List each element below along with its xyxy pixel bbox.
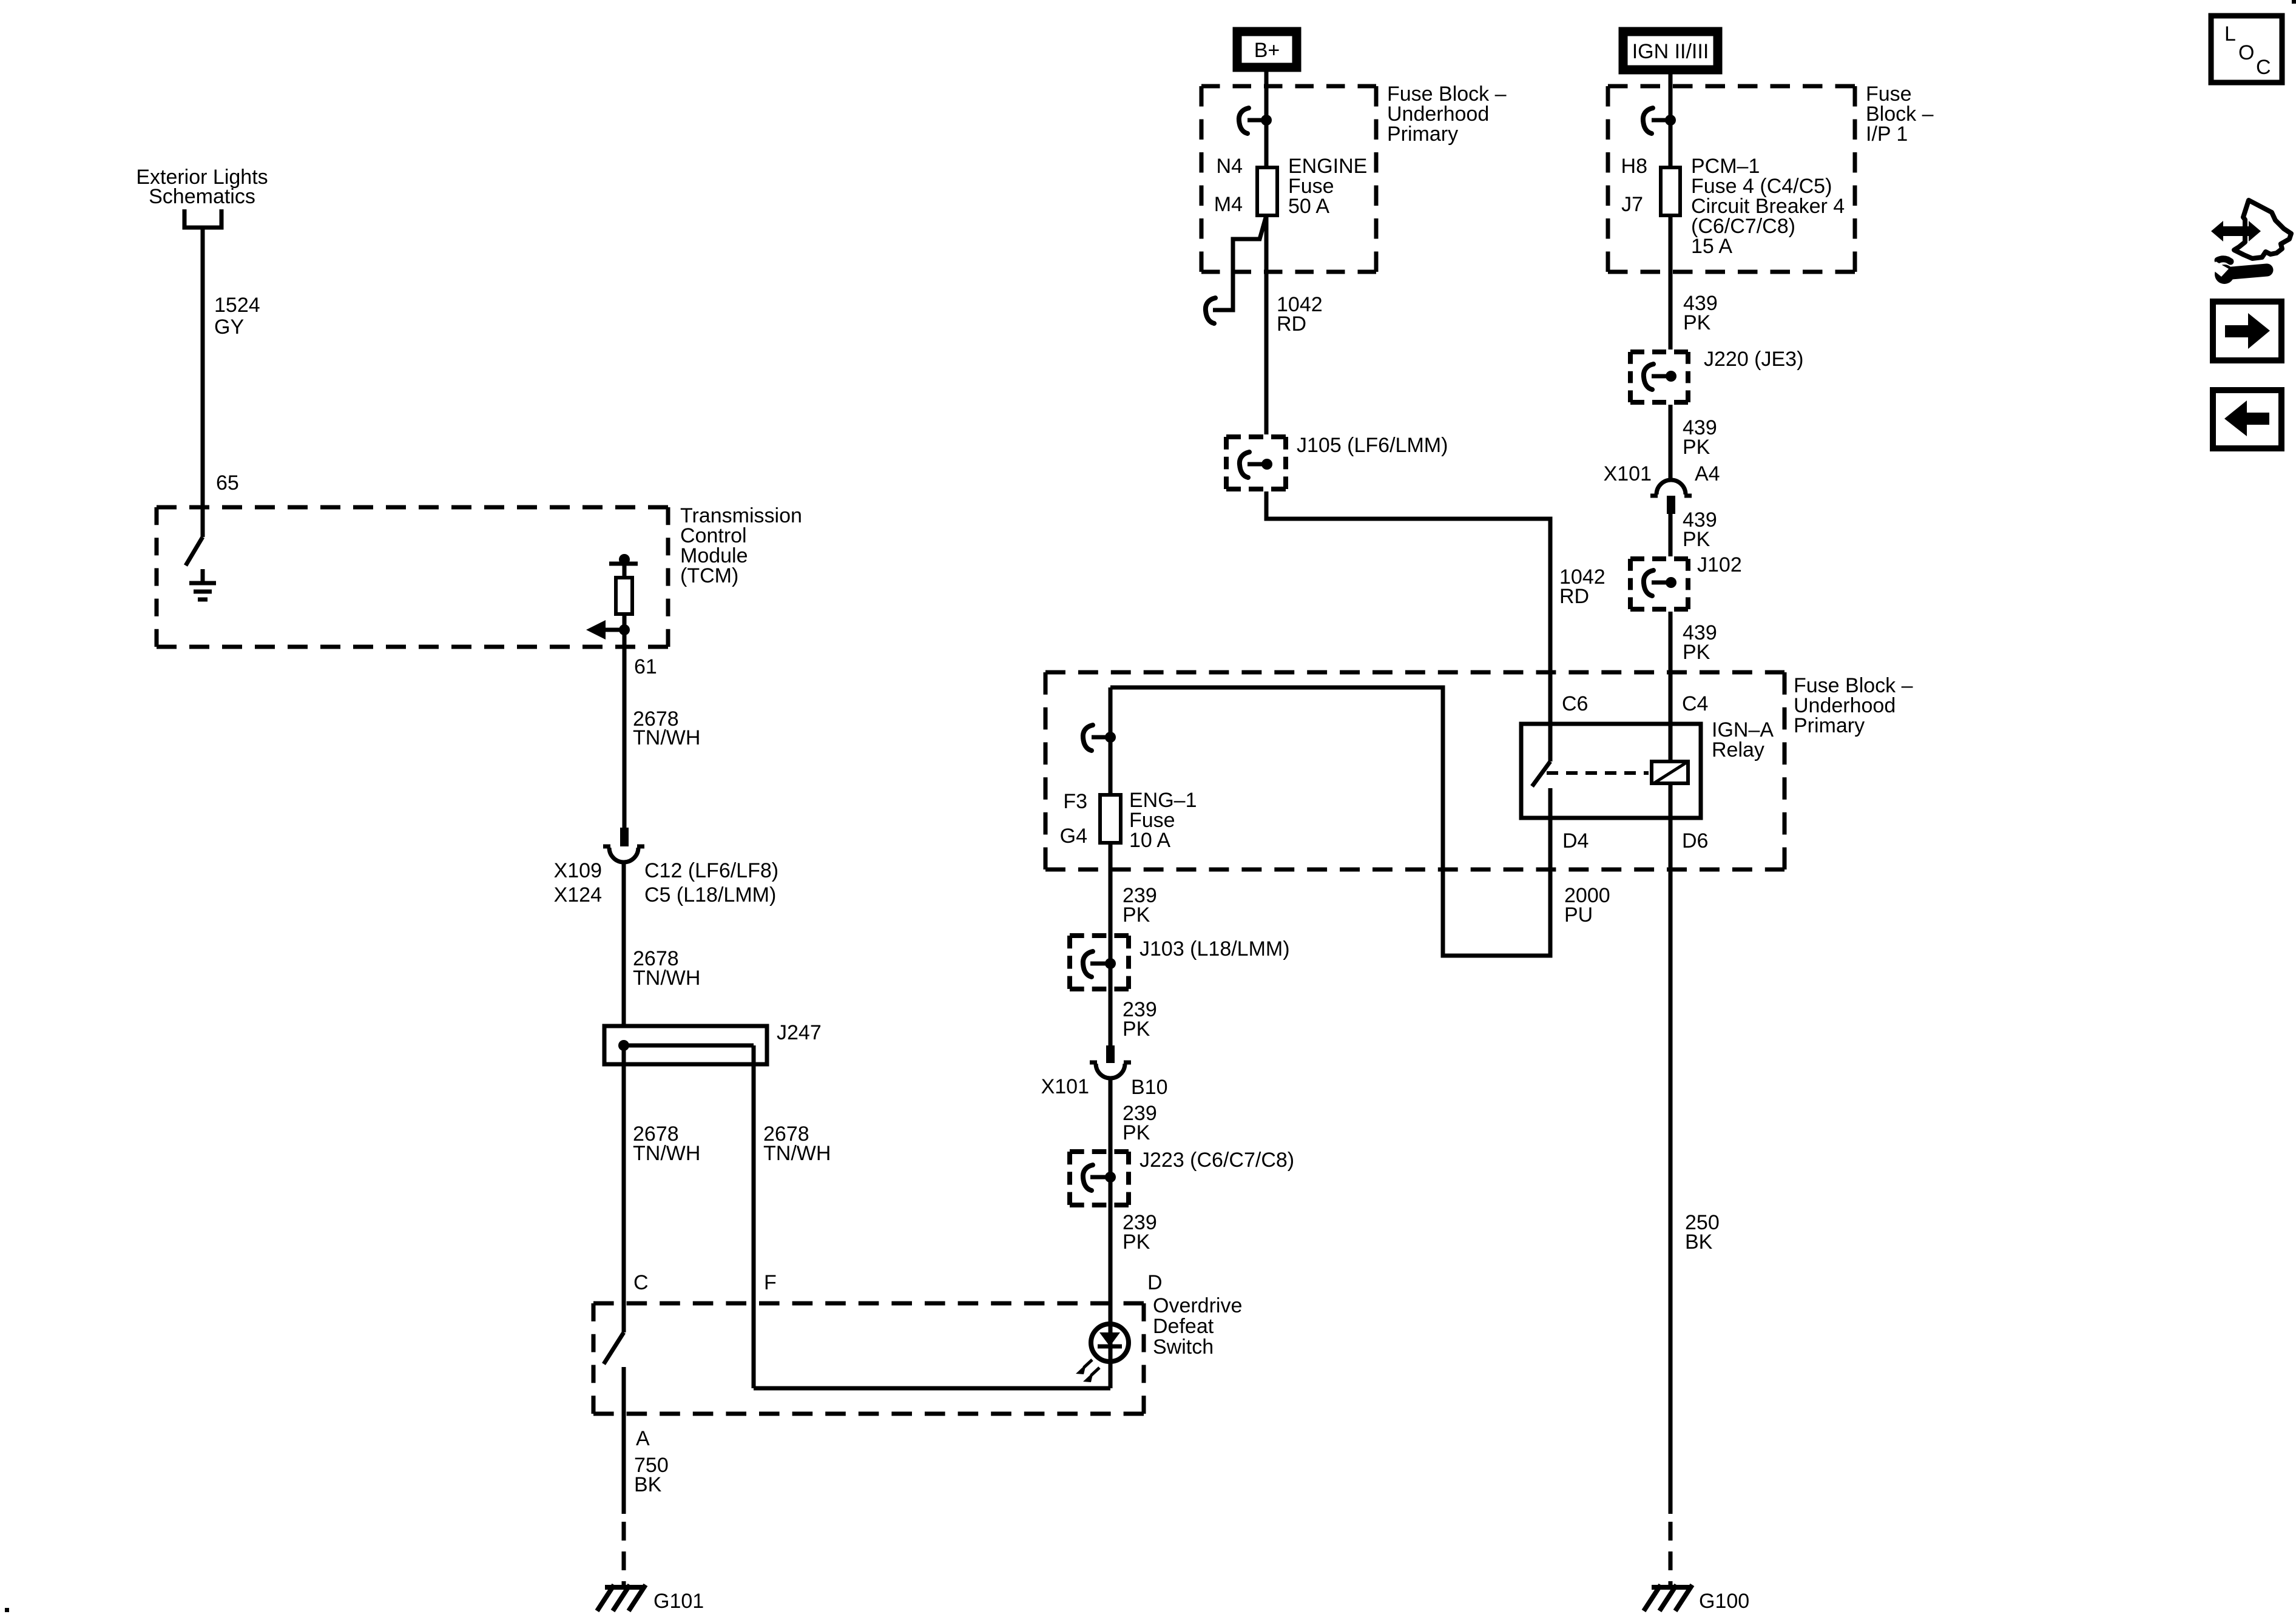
svg-text:50 A: 50 A xyxy=(1288,195,1329,218)
wire from LED to switch pin F xyxy=(754,1386,1110,1391)
connector J103 (L18/LMM) xyxy=(1070,936,1290,1041)
svg-text:TN/WH: TN/WH xyxy=(633,967,700,990)
relay switch blade C6-D4 xyxy=(1532,761,1550,820)
svg-text:G100: G100 xyxy=(1699,1590,1749,1613)
bus clip at H8 feed xyxy=(1643,108,1676,133)
wrench icon xyxy=(2210,259,2267,284)
LOC legend box icon xyxy=(2211,16,2282,83)
svg-text:PK: PK xyxy=(1123,1230,1150,1254)
wire 439 PK from J220 to X101 xyxy=(1670,405,1717,481)
svg-text:PK: PK xyxy=(1123,903,1150,927)
svg-text:I/P 1: I/P 1 xyxy=(1866,123,1908,146)
svg-text:PK: PK xyxy=(1123,1121,1150,1144)
Overdrive Defeat Switch dashed box xyxy=(593,1294,1242,1414)
connector X109/X124 pin C12/C5 inline xyxy=(554,828,779,906)
forward arrow navigation box xyxy=(2213,302,2281,360)
back arrow navigation box xyxy=(2213,390,2281,448)
wire 2678 TN/WH pin 61 from TCM to X109 connector xyxy=(624,630,700,828)
Transmission Control Module (TCM) dashed box xyxy=(157,504,802,647)
svg-text:M4: M4 xyxy=(1214,193,1243,216)
svg-text:B10: B10 xyxy=(1131,1076,1168,1099)
svg-text:N4: N4 xyxy=(1217,155,1243,178)
svg-text:PK: PK xyxy=(1683,311,1711,334)
svg-text:(TCM): (TCM) xyxy=(680,564,738,587)
connector J220 (JE3) xyxy=(1630,348,1803,402)
svg-text:C: C xyxy=(633,1271,649,1294)
svg-text:PK: PK xyxy=(1683,436,1710,459)
svg-text:Relay: Relay xyxy=(1712,738,1764,761)
svg-text:Schematics: Schematics xyxy=(149,185,255,208)
svg-text:BK: BK xyxy=(634,1473,662,1496)
bus clip at ENG-1 fuse feed F3 xyxy=(1083,687,1116,793)
svg-text:D6: D6 xyxy=(1682,829,1708,852)
wire 239 PK from ENG-1 fuse to J103 xyxy=(1110,845,1157,1045)
svg-text:61: 61 xyxy=(634,655,657,678)
svg-text:C4: C4 xyxy=(1682,692,1708,715)
connector X101 pin B10 inline xyxy=(1041,1045,1168,1144)
connector J105 (LF6/LMM) xyxy=(1226,434,1448,489)
svg-text:J220 (JE3): J220 (JE3) xyxy=(1704,348,1803,371)
resistor inside TCM xyxy=(609,554,638,630)
svg-text:G4: G4 xyxy=(1060,825,1087,848)
svg-text:10 A: 10 A xyxy=(1129,829,1170,852)
svg-text:C: C xyxy=(2256,56,2271,79)
bus clip at N4 feed xyxy=(1239,108,1272,133)
svg-text:H8: H8 xyxy=(1621,155,1647,178)
svg-text:X109: X109 xyxy=(554,859,602,882)
wire 750 BK pin A to G101 xyxy=(624,1367,669,1585)
svg-text:GY: GY xyxy=(214,316,244,339)
wire 1524 GY from Exterior Lights to TCM xyxy=(203,228,260,537)
LED emission arrows xyxy=(1076,1360,1099,1382)
page artifact mark top-right corner xyxy=(2292,0,2296,4)
svg-text:BK: BK xyxy=(1685,1230,1713,1254)
svg-text:G101: G101 xyxy=(653,1590,704,1613)
svg-text:PU: PU xyxy=(1564,903,1593,927)
ground G101 xyxy=(597,1585,704,1613)
wire 2678 TN/WH from X109 to J247 xyxy=(624,862,700,1024)
connector X101 pin A4 inline xyxy=(1604,462,1720,514)
svg-text:J247: J247 xyxy=(777,1021,822,1044)
wire 439 PK from PCM-1 fuse to J220 xyxy=(1670,217,1718,349)
node B+ power feed box xyxy=(1237,32,1297,67)
svg-text:C6: C6 xyxy=(1562,692,1588,715)
svg-text:1524: 1524 xyxy=(214,294,260,317)
Fuse Block - I/P 1 dashed box xyxy=(1608,83,1934,272)
svg-text:C12 (LF6/LF8): C12 (LF6/LF8) xyxy=(644,859,778,882)
wire 1042 RD from J105 to relay C6 xyxy=(1266,491,1606,761)
wire 439 PK from J102 to relay C4 xyxy=(1670,612,1717,760)
node IGN II/III power feed box xyxy=(1623,32,1718,70)
svg-text:J103 (L18/LMM): J103 (L18/LMM) xyxy=(1140,937,1290,960)
page artifact dot bottom-left xyxy=(5,1608,9,1612)
svg-text:B+: B+ xyxy=(1254,39,1280,62)
svg-text:PK: PK xyxy=(1123,1018,1150,1041)
LED indicator inside Overdrive Defeat Switch xyxy=(1091,1271,1163,1388)
connector J223 (C6/C7/C8) xyxy=(1070,1078,1294,1303)
svg-text:D4: D4 xyxy=(1562,829,1589,852)
svg-text:TN/WH: TN/WH xyxy=(633,726,700,749)
svg-text:TN/WH: TN/WH xyxy=(763,1142,831,1165)
svg-text:Switch: Switch xyxy=(1153,1335,1214,1359)
IGN-A Relay box xyxy=(1521,692,1774,852)
svg-text:C5 (L18/LMM): C5 (L18/LMM) xyxy=(644,883,776,906)
svg-text:F: F xyxy=(764,1271,777,1294)
svg-text:Primary: Primary xyxy=(1387,123,1458,146)
interactive hand tool icon xyxy=(2211,200,2291,258)
wire from B+ into fuse block xyxy=(1264,72,1269,166)
Fuse Block - Underhood Primary dashed box (top) xyxy=(1201,83,1507,272)
node Exterior Lights Schematics off-page connector xyxy=(136,166,268,228)
svg-text:A: A xyxy=(636,1427,650,1450)
ground G100 xyxy=(1644,1585,1749,1613)
svg-text:RD: RD xyxy=(1277,312,1306,336)
fuse ENG-1 10 A (F3/G4) xyxy=(1060,789,1197,852)
svg-text:X101: X101 xyxy=(1041,1075,1089,1098)
svg-text:PK: PK xyxy=(1683,528,1710,551)
svg-text:J223 (C6/C7/C8): J223 (C6/C7/C8) xyxy=(1140,1149,1294,1172)
svg-text:A4: A4 xyxy=(1695,462,1720,485)
svg-text:Primary: Primary xyxy=(1794,714,1865,737)
svg-text:PK: PK xyxy=(1683,641,1710,664)
wire from IGN II/III into fuse block xyxy=(1669,74,1673,166)
svg-text:RD: RD xyxy=(1559,585,1589,608)
Fuse Block - Underhood Primary dashed box (middle) xyxy=(1045,672,1913,869)
switch contact inside TCM on pin 65 xyxy=(186,537,203,565)
switch blade pin C to pin A xyxy=(604,1332,624,1364)
wire 2678 TN/WH from J247 to switch pin C xyxy=(624,1045,700,1332)
relay actuation dashed link xyxy=(1547,771,1649,775)
svg-text:Defeat: Defeat xyxy=(1153,1315,1214,1338)
svg-text:15 A: 15 A xyxy=(1691,235,1732,258)
M4 jog wire to bus clip xyxy=(1206,215,1266,323)
wire 250 BK from relay D6 to G100 xyxy=(1670,785,1720,1585)
fuse PCM-1 Fuse 4 / Circuit Breaker 4 15 A (H8/J7) xyxy=(1621,155,1845,258)
svg-text:J105 (LF6/LMM): J105 (LF6/LMM) xyxy=(1297,434,1448,457)
svg-text:IGN II/III: IGN II/III xyxy=(1632,40,1709,63)
svg-text:X124: X124 xyxy=(554,883,602,906)
svg-text:Overdrive: Overdrive xyxy=(1153,1294,1242,1317)
wire 439 PK from X101 to J102 xyxy=(1670,508,1717,556)
svg-text:65: 65 xyxy=(216,471,239,495)
splice pack J247 xyxy=(604,1021,822,1064)
svg-text:J102: J102 xyxy=(1697,553,1742,576)
svg-text:TN/WH: TN/WH xyxy=(633,1142,700,1165)
arrow terminal pin 61 inside TCM xyxy=(586,620,630,640)
wire 2678 TN/WH from J247 to switch pin F xyxy=(754,1045,831,1388)
svg-text:O: O xyxy=(2238,41,2254,64)
svg-text:X101: X101 xyxy=(1604,462,1652,485)
connector J102 xyxy=(1630,553,1742,609)
fuse ENGINE 50 A (N4/M4) xyxy=(1214,155,1368,218)
relay coil on C4-D6 xyxy=(1652,761,1688,783)
svg-text:D: D xyxy=(1147,1271,1163,1294)
wire 1042 RD from ENGINE fuse to J105 xyxy=(1266,217,1323,434)
svg-text:L: L xyxy=(2224,22,2236,46)
svg-text:J7: J7 xyxy=(1621,193,1643,216)
svg-text:F3: F3 xyxy=(1063,790,1087,813)
wire 2000 PU from relay D4 looping to ENG-1 feed xyxy=(1110,687,1610,956)
ground symbol inside TCM xyxy=(189,569,216,599)
